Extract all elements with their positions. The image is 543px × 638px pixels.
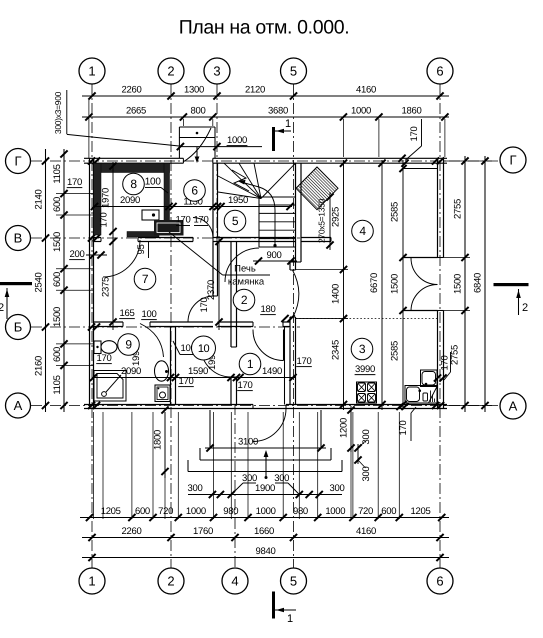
shower tray [94, 371, 126, 402]
porch top outline [179, 127, 215, 158]
svg-text:2540: 2540 [34, 273, 45, 293]
door stair hall arc [225, 248, 259, 282]
entrance door arc [253, 409, 286, 442]
svg-text:600: 600 [135, 506, 150, 517]
dim line top row2 [82, 116, 449, 118]
dim line right col2 [484, 156, 486, 412]
porch step 2 [200, 448, 331, 460]
dim 100 room8 wall [145, 177, 168, 194]
dim 100 room10 [173, 341, 196, 355]
inner wall face line top right [403, 168, 438, 170]
door room6 arc [193, 218, 213, 238]
svg-text:170: 170 [398, 421, 409, 436]
svg-text:800: 800 [191, 106, 206, 117]
stair walking line [238, 180, 277, 247]
room circle 1 [239, 353, 261, 375]
svg-text:170: 170 [179, 376, 194, 387]
svg-text:4160: 4160 [356, 526, 376, 537]
sauna bench [142, 210, 159, 220]
washbasin [155, 361, 169, 381]
porch step 1 [210, 410, 321, 448]
svg-text:300: 300 [274, 473, 289, 484]
door sauna arc [103, 240, 140, 277]
wall room5-6 divider [213, 163, 218, 237]
svg-text:Г: Г [14, 154, 21, 169]
dim ticks 2585 chain [399, 165, 406, 408]
svg-text:980: 980 [293, 506, 308, 517]
dim 3990 room3 [355, 364, 376, 375]
stove leader and label [169, 232, 270, 288]
door room7 east arc [188, 296, 214, 322]
door room1 leaf and arc [253, 330, 284, 361]
dim ticks right col2 [481, 157, 488, 409]
svg-text:720: 720 [158, 506, 173, 517]
dim ticks bottom rowA [209, 491, 323, 498]
svg-text:2585: 2585 [390, 341, 401, 361]
wall stair-hall vertical [285, 163, 302, 404]
svg-text:2: 2 [167, 64, 174, 79]
dim ticks 2090-1130-1950 [91, 203, 294, 210]
svg-text:1105: 1105 [52, 164, 63, 183]
dim 1000 porch [227, 135, 248, 146]
axis line Б [31, 326, 300, 328]
stair winder fan [218, 163, 296, 198]
axis circle 5 top [281, 58, 307, 84]
svg-text:170: 170 [238, 380, 253, 391]
dim ticks left col2 [60, 150, 67, 409]
dim line 1000 porch [180, 146, 262, 148]
section mark 2 right [494, 283, 529, 315]
svg-text:Г: Г [509, 153, 516, 168]
wall axis Б horizontal [94, 322, 291, 327]
dim 95 label [136, 242, 149, 258]
axis circle 5 bottom [281, 568, 307, 594]
svg-text:600: 600 [52, 197, 63, 212]
svg-text:100: 100 [145, 177, 162, 188]
dim line left col1 [45, 149, 47, 412]
dim 1800 porch [153, 406, 169, 478]
dim ticks top row1 [88, 92, 443, 99]
svg-text:1500: 1500 [52, 232, 63, 252]
svg-text:1000: 1000 [186, 506, 206, 517]
section mark 1 bottom [272, 592, 296, 626]
dim 300x3=900 steps label [53, 90, 179, 146]
room circle 7 [134, 268, 156, 290]
axis circle В left [6, 226, 31, 251]
dim ticks 2925 chain [340, 160, 347, 409]
axis line 6 [439, 84, 441, 568]
svg-text:2: 2 [241, 293, 248, 307]
svg-text:720: 720 [358, 506, 373, 517]
room circle 2 [233, 289, 255, 311]
dim 300 step b [358, 460, 372, 481]
axis line А [31, 405, 500, 407]
axis circle 4 bottom [222, 568, 248, 594]
stair straight flight [259, 163, 296, 247]
svg-text:1300: 1300 [184, 85, 204, 96]
dim line right col1 [464, 156, 466, 412]
dim ticks 270x5 [326, 193, 333, 248]
dim ticks 1000 porch [177, 143, 221, 150]
dim line 900 stair [253, 260, 297, 262]
svg-text:95: 95 [136, 245, 147, 255]
svg-text:170: 170 [194, 215, 209, 226]
svg-text:2925: 2925 [331, 207, 342, 227]
axis circle Б left [6, 315, 31, 340]
dim 170 shower [96, 353, 112, 364]
wall rooms 9-10 divider [171, 327, 176, 405]
dim 170 below wall right [398, 407, 416, 441]
dim 170 top right wall [398, 119, 421, 167]
svg-text:1760: 1760 [193, 526, 213, 537]
svg-text:600: 600 [381, 506, 396, 517]
svg-text:2345: 2345 [331, 340, 342, 360]
svg-text:5: 5 [290, 64, 297, 79]
axis line В [31, 237, 300, 239]
svg-text:3: 3 [359, 342, 366, 356]
svg-text:1: 1 [88, 64, 95, 79]
svg-text:5: 5 [290, 574, 297, 589]
room circle 4 [352, 220, 374, 242]
porch arrow [264, 450, 269, 479]
svg-text:6: 6 [436, 574, 443, 589]
svg-text:200: 200 [70, 249, 85, 260]
svg-text:600: 600 [52, 272, 63, 287]
svg-text:2375: 2375 [101, 277, 112, 297]
svg-text:2: 2 [167, 574, 174, 589]
dim line bottom rowB [80, 517, 449, 519]
axis line 1 [91, 84, 93, 568]
dim ticks 2370 [215, 238, 222, 326]
section mark 1 top [272, 118, 291, 151]
wall room7-corridor vertical [213, 242, 218, 297]
svg-text:камянка: камянка [228, 277, 265, 288]
porch top arrow [195, 132, 200, 163]
dim line 2090-1130-1950 [93, 206, 292, 208]
svg-text:1900: 1900 [255, 483, 275, 494]
dim line bottom rowC [82, 537, 449, 539]
axis circle 1 bottom [79, 568, 105, 594]
svg-text:3: 3 [213, 64, 220, 79]
dim ticks room8 height [109, 162, 116, 325]
svg-text:1500: 1500 [52, 307, 63, 327]
svg-text:1: 1 [285, 118, 291, 130]
door room9 arc [140, 324, 164, 358]
room circle 10 [192, 336, 216, 360]
svg-text:4: 4 [359, 224, 366, 238]
wall axis crossing ticks [88, 157, 447, 410]
zone line room3 dotted [296, 318, 438, 320]
porch top door arc [183, 128, 211, 162]
svg-text:170: 170 [67, 177, 82, 188]
dim 165 wall [119, 308, 135, 319]
svg-text:165: 165 [120, 308, 135, 319]
door room10 arc [201, 347, 231, 377]
svg-text:9840: 9840 [256, 546, 276, 557]
svg-text:2585: 2585 [390, 202, 401, 222]
washing machine [155, 385, 170, 402]
dim 170 under room1 [237, 380, 253, 391]
svg-text:3680: 3680 [268, 106, 288, 117]
svg-text:1000: 1000 [325, 506, 345, 517]
section mark 2 left [0, 282, 32, 319]
svg-text:180: 180 [261, 304, 276, 315]
svg-text:1660: 1660 [254, 526, 274, 537]
opening arch corridor [293, 270, 299, 317]
svg-text:7: 7 [142, 272, 149, 286]
dim 100 wall a [141, 309, 157, 320]
dim 170 left wall [67, 177, 83, 188]
axis line 3 [216, 84, 218, 241]
svg-text:1: 1 [247, 357, 254, 371]
svg-text:10: 10 [198, 343, 210, 355]
svg-text:4160: 4160 [356, 85, 376, 96]
svg-text:1205: 1205 [101, 506, 121, 517]
svg-text:1500: 1500 [453, 274, 464, 294]
dim line 2585 chain [402, 160, 404, 410]
wall axis B horizontal [94, 238, 296, 242]
porch top steps [179, 137, 215, 139]
svg-text:А: А [509, 399, 518, 414]
svg-text:300: 300 [361, 430, 372, 445]
svg-text:4: 4 [231, 574, 238, 589]
svg-text:170: 170 [440, 356, 451, 371]
svg-text:3100: 3100 [238, 437, 258, 448]
dim 300 leader right [274, 473, 299, 495]
sauna wall bottom [127, 232, 159, 238]
dim ticks 900 stair [255, 257, 295, 264]
dim line 6670 chain [381, 160, 383, 410]
axis circle 6 bottom [427, 568, 453, 594]
extension lines top [89, 98, 445, 158]
svg-text:1200: 1200 [339, 418, 350, 438]
dim ticks bottom rowD [88, 554, 443, 561]
stair break line [232, 170, 249, 191]
svg-text:1000: 1000 [256, 506, 276, 517]
svg-text:2: 2 [522, 302, 528, 314]
svg-text:1105: 1105 [52, 375, 63, 394]
svg-text:А: А [14, 398, 23, 413]
svg-text:9: 9 [125, 338, 132, 352]
axis line 2 [170, 84, 172, 568]
axis line 5 [293, 84, 295, 568]
dim ticks left col1 [42, 157, 49, 409]
svg-text:2160: 2160 [34, 356, 45, 376]
svg-text:170: 170 [199, 298, 210, 313]
svg-text:Б: Б [14, 320, 23, 335]
svg-text:2260: 2260 [122, 85, 142, 96]
wall stub axis B right [301, 238, 331, 242]
dim line rooms 9-10-1 [93, 377, 296, 379]
svg-text:1000: 1000 [227, 135, 247, 146]
kitchen stove [357, 382, 377, 403]
dim 180 room2 [260, 304, 276, 315]
svg-text:900: 900 [267, 250, 282, 261]
svg-text:1970: 1970 [101, 188, 112, 208]
svg-text:2090: 2090 [120, 195, 140, 206]
svg-text:2140: 2140 [34, 190, 45, 210]
dim 300 leader left [231, 473, 257, 495]
sauna wall left [94, 163, 102, 235]
dim 200 left [69, 249, 85, 260]
svg-text:300: 300 [242, 473, 257, 484]
svg-text:1500: 1500 [390, 274, 401, 294]
svg-text:В: В [14, 231, 23, 246]
svg-text:170: 170 [409, 127, 420, 142]
dim line bottom rowD [82, 557, 449, 559]
extension line 1400 top [296, 269, 349, 271]
wall corridor vertical [231, 242, 237, 405]
svg-text:1800: 1800 [153, 430, 164, 450]
axis circle Г left [6, 149, 31, 174]
svg-text:100: 100 [142, 309, 157, 320]
svg-text:2090: 2090 [121, 366, 141, 377]
dim ticks right col1 [461, 157, 468, 409]
axis line 4 [234, 404, 236, 568]
svg-text:170: 170 [99, 213, 110, 228]
kitchen sink unit [405, 370, 437, 403]
svg-text:2755: 2755 [450, 345, 461, 365]
svg-text:170: 170 [297, 356, 312, 367]
svg-text:5: 5 [232, 214, 239, 228]
svg-text:8: 8 [130, 177, 137, 191]
dim line 270x5 chain [329, 192, 331, 250]
extension lines bottom [94, 412, 400, 519]
room circle 9 [118, 334, 140, 356]
axis circle 6 top [427, 58, 453, 84]
dim ticks top row2 [85, 113, 448, 120]
dim 170 right wall label [440, 352, 451, 380]
svg-text:1860: 1860 [402, 106, 422, 117]
dim line 3100 [205, 447, 326, 449]
axis circle 3 top [204, 58, 230, 84]
svg-text:600: 600 [52, 347, 63, 362]
dim 170 under room10 [178, 376, 194, 387]
dim ticks 6670 chain [378, 160, 385, 409]
sauna stove block [154, 220, 184, 236]
axis circle 2 top [158, 58, 184, 84]
svg-text:2665: 2665 [126, 106, 146, 117]
axis circle А left [6, 393, 31, 418]
dim 1200 porch [339, 406, 355, 452]
outer wall right [438, 158, 444, 408]
svg-text:План на отм. 0.000.: План на отм. 0.000. [179, 17, 350, 39]
svg-text:2370: 2370 [206, 280, 217, 300]
room circle 6 [184, 180, 206, 202]
svg-text:170: 170 [97, 353, 112, 364]
dim 170 wall right of room1 [296, 356, 312, 367]
room circle 5 [224, 210, 246, 232]
svg-text:300: 300 [188, 483, 203, 494]
svg-text:6: 6 [436, 64, 443, 79]
balcony door leaf upper [411, 258, 438, 285]
room circle 3 [351, 338, 373, 360]
toilet [94, 341, 117, 354]
outer wall bottom [84, 405, 447, 409]
axis line Г [31, 160, 500, 162]
stove diamond hatched [296, 167, 338, 210]
axis circle Г right [500, 147, 526, 173]
outer wall left [90, 158, 94, 408]
axis circle А right [500, 393, 526, 419]
room circle 8 [123, 173, 145, 195]
svg-text:1000: 1000 [351, 106, 371, 117]
svg-text:6: 6 [191, 184, 198, 198]
dim line 2370 chain [218, 236, 220, 330]
dim line bottom rowA [188, 494, 342, 496]
dim ticks rooms 9-10-1 [90, 374, 297, 381]
dim line left col2 [63, 149, 65, 412]
outer wall top [84, 158, 447, 163]
svg-text:6670: 6670 [369, 273, 380, 293]
extension line 1400 bottom [296, 318, 349, 320]
svg-text:1950: 1950 [228, 195, 248, 206]
svg-text:1490: 1490 [262, 366, 282, 377]
svg-text:170: 170 [176, 215, 191, 226]
svg-text:1: 1 [287, 613, 293, 625]
svg-text:6840: 6840 [473, 273, 484, 293]
svg-text:2755: 2755 [453, 199, 464, 219]
dim ticks bottom rowC [88, 534, 443, 541]
door jamb stub right lower [403, 310, 438, 312]
svg-text:1205: 1205 [411, 506, 431, 517]
extension lines right [444, 161, 493, 406]
door jamb stub right upper [403, 257, 438, 259]
porch step 3 [188, 460, 342, 472]
svg-text:300: 300 [330, 483, 345, 494]
dim line 2925 chain [343, 160, 345, 410]
svg-text:2260: 2260 [122, 526, 142, 537]
svg-text:2: 2 [0, 302, 4, 314]
dim 200 ticks line [86, 251, 107, 258]
svg-text:2120: 2120 [245, 85, 265, 96]
axis circle 1 top [79, 58, 105, 84]
dim line top row1 [82, 95, 449, 97]
sauna wall top [95, 163, 170, 172]
sauna wall right [164, 163, 170, 235]
axis circle 2 bottom [158, 568, 184, 594]
svg-text:3990: 3990 [355, 364, 375, 375]
svg-text:1: 1 [88, 574, 95, 589]
balcony door leaf lower [411, 285, 438, 312]
svg-text:300)х3=900: 300)х3=900 [53, 91, 63, 134]
svg-text:Печь: Печь [234, 264, 256, 275]
dim line room8 height chain [112, 162, 114, 330]
svg-text:980: 980 [223, 506, 238, 517]
dim ticks bottom rowB [86, 514, 445, 521]
svg-text:1400: 1400 [331, 284, 342, 304]
dim ticks 3100 [206, 444, 324, 451]
extension lines left [56, 194, 94, 366]
svg-text:300: 300 [361, 467, 372, 482]
dim 300 step a [354, 430, 372, 464]
dim 170 170 walls [176, 215, 209, 226]
